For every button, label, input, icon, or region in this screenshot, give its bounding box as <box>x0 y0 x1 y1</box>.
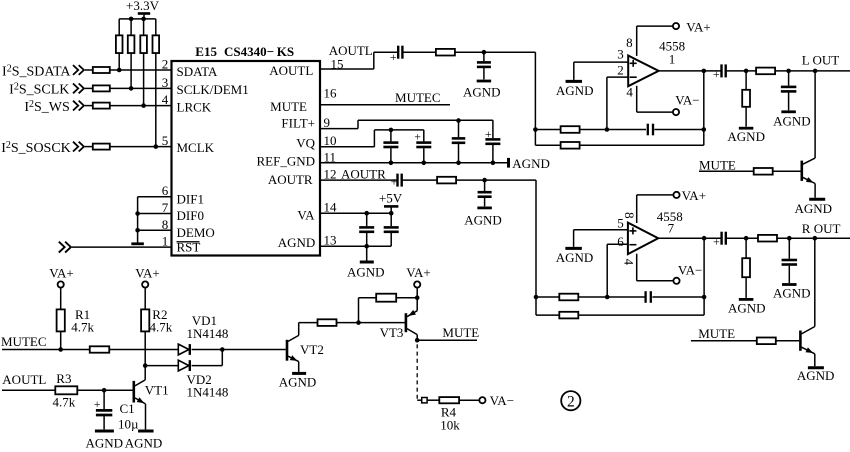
svg-text:7: 7 <box>668 221 675 236</box>
svg-text:VA+: VA+ <box>49 266 73 281</box>
svg-text:LRCK: LRCK <box>177 99 212 114</box>
svg-text:AGND: AGND <box>727 129 765 144</box>
svg-text:AGND: AGND <box>728 301 766 316</box>
svg-text:3: 3 <box>617 46 624 61</box>
svg-text:6: 6 <box>617 234 624 249</box>
svg-text:4.7k: 4.7k <box>71 320 94 335</box>
svg-text:MUTE: MUTE <box>270 99 307 114</box>
svg-text:DEMO: DEMO <box>177 225 215 240</box>
svg-text:+: + <box>713 67 720 81</box>
svg-text:I2S_SDATA: I2S_SDATA <box>2 64 71 80</box>
svg-text:AOUTL: AOUTL <box>2 372 46 387</box>
svg-text:AOUTL: AOUTL <box>269 63 313 78</box>
svg-text:VT3: VT3 <box>380 325 404 340</box>
svg-text:AGND: AGND <box>556 250 594 265</box>
svg-text:1N4148: 1N4148 <box>187 326 229 341</box>
svg-text:R3: R3 <box>56 371 71 386</box>
svg-text:VA+: VA+ <box>686 19 710 34</box>
svg-text:AGND: AGND <box>347 265 385 280</box>
svg-text:8: 8 <box>626 35 633 50</box>
svg-text:+: + <box>390 50 397 64</box>
svg-text:AGND: AGND <box>278 235 316 250</box>
svg-text:AOUTR: AOUTR <box>268 172 313 187</box>
svg-text:+: + <box>485 127 492 141</box>
svg-text:AGND: AGND <box>86 435 124 450</box>
svg-text:AGND: AGND <box>797 368 835 383</box>
svg-text:VA: VA <box>297 207 315 222</box>
svg-text:+: + <box>713 235 720 249</box>
svg-text:MUTE: MUTE <box>698 326 735 341</box>
svg-text:10µ: 10µ <box>118 417 139 432</box>
svg-text:VA−: VA− <box>675 93 699 108</box>
svg-text:SDATA: SDATA <box>177 64 218 79</box>
svg-text:8: 8 <box>622 212 637 219</box>
svg-text:VQ: VQ <box>296 135 315 150</box>
svg-text:REF_GND: REF_GND <box>256 154 315 169</box>
svg-text:AGND: AGND <box>795 201 833 216</box>
svg-text:AGND: AGND <box>773 113 811 128</box>
svg-text:E15CS4340−KS: E15CS4340−KS <box>195 44 294 59</box>
svg-text:1: 1 <box>669 52 676 67</box>
svg-text:SCLK/DEM1: SCLK/DEM1 <box>177 82 249 97</box>
svg-text:VA−: VA− <box>678 263 702 278</box>
svg-text:+3.3V: +3.3V <box>126 0 160 13</box>
svg-text:2: 2 <box>617 62 624 77</box>
svg-text:C1: C1 <box>120 401 135 416</box>
svg-text:5: 5 <box>162 133 169 148</box>
svg-text:VT1: VT1 <box>145 383 169 398</box>
svg-text:VA+: VA+ <box>135 266 159 281</box>
svg-text:AOUTR: AOUTR <box>341 167 386 182</box>
svg-text:VT2: VT2 <box>300 342 324 357</box>
svg-text:AGND: AGND <box>556 83 594 98</box>
svg-text:10k: 10k <box>440 417 460 432</box>
svg-text:4: 4 <box>162 92 169 107</box>
svg-text:4.7k: 4.7k <box>53 395 76 410</box>
svg-text:L OUT: L OUT <box>802 53 839 68</box>
svg-text:2: 2 <box>162 57 169 72</box>
svg-text:4: 4 <box>626 85 633 100</box>
svg-text:DIF1: DIF1 <box>177 191 204 206</box>
svg-text:I2S_SOSCK: I2S_SOSCK <box>1 140 71 156</box>
svg-text:1N4148: 1N4148 <box>187 384 229 399</box>
svg-text:AGND: AGND <box>464 212 502 227</box>
svg-text:VA+: VA+ <box>682 188 706 203</box>
svg-text:MUTEC: MUTEC <box>1 334 47 349</box>
svg-text:VA−: VA− <box>490 393 514 408</box>
svg-text:VA+: VA+ <box>406 265 430 280</box>
svg-text:+: + <box>94 397 101 411</box>
svg-text:AGND: AGND <box>279 374 317 389</box>
svg-text:AGND: AGND <box>125 435 163 450</box>
svg-text:+: + <box>414 130 421 144</box>
svg-text:AGND: AGND <box>512 156 550 171</box>
svg-text:MUTE: MUTE <box>442 325 479 340</box>
svg-text:12: 12 <box>324 167 337 182</box>
svg-text:2: 2 <box>567 394 575 411</box>
svg-text:+: + <box>391 175 398 189</box>
svg-text:10: 10 <box>324 133 337 148</box>
svg-text:MUTEC: MUTEC <box>395 90 441 105</box>
svg-text:4.7k: 4.7k <box>150 320 173 335</box>
svg-text:4: 4 <box>622 259 637 266</box>
svg-text:FILT+: FILT+ <box>281 116 315 131</box>
svg-text:MCLK: MCLK <box>177 140 215 155</box>
svg-text:16: 16 <box>324 85 338 100</box>
svg-text:AGND: AGND <box>463 84 501 99</box>
svg-text:AGND: AGND <box>773 286 811 301</box>
svg-text:3: 3 <box>162 75 169 90</box>
svg-text:DIF0: DIF0 <box>177 208 204 223</box>
svg-text:+5V: +5V <box>379 191 403 206</box>
svg-text:MUTE: MUTE <box>699 157 736 172</box>
svg-text:R OUT: R OUT <box>802 221 841 236</box>
svg-text:I2S_SCLK: I2S_SCLK <box>9 82 69 98</box>
svg-text:9: 9 <box>324 115 331 130</box>
svg-text:AOUTL: AOUTL <box>329 43 373 58</box>
